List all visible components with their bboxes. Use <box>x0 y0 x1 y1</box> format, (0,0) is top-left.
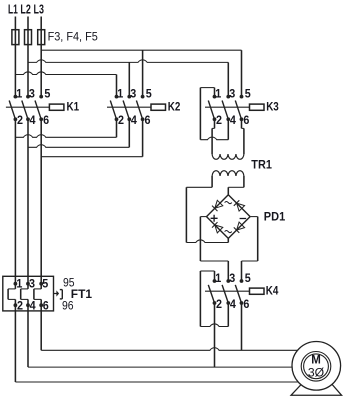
svg-text:1: 1 <box>16 86 22 100</box>
diode lower-left <box>215 225 223 233</box>
coil K2 <box>151 104 166 110</box>
overload FT1 heater 3 <box>34 284 41 306</box>
overload FT1 heater 2 <box>21 284 28 306</box>
motor inner circle 1 <box>301 352 331 382</box>
node K4 terminal 3 <box>226 279 230 283</box>
svg-text:TR1: TR1 <box>251 157 272 171</box>
node K2 terminal 5 <box>141 95 145 99</box>
svg-text:M: M <box>311 355 321 367</box>
node K3 terminal 6 <box>240 117 244 121</box>
svg-text:1: 1 <box>117 86 123 100</box>
node K3 terminal 1 <box>213 95 217 99</box>
wire K2 linkage <box>107 106 151 108</box>
contact K4 pole 1 blade <box>208 285 214 303</box>
node K2 terminal 1 <box>115 95 119 99</box>
node FT1 terminal 1 <box>14 282 18 286</box>
svg-text:L3: L3 <box>34 2 44 17</box>
svg-text:6: 6 <box>243 297 249 311</box>
wire K1 out phase2 <box>27 119 29 283</box>
fuse F4 <box>25 30 32 45</box>
label PD1 minus <box>240 218 247 220</box>
svg-text:L1: L1 <box>8 2 18 17</box>
wire K4 linkage <box>205 290 250 292</box>
svg-text:5: 5 <box>42 277 48 291</box>
node K2 terminal 6 <box>141 117 145 121</box>
wire K3 terminal 6 to TR1 primary <box>242 119 244 154</box>
node FT1 terminal 6 <box>39 303 43 307</box>
wire branch L2 corner down to K3 terminal 3 <box>227 62 229 96</box>
svg-text:3Ø: 3Ø <box>308 368 324 380</box>
node K3 terminal 5 <box>240 95 244 99</box>
node FT1 terminal 3 <box>26 282 30 286</box>
svg-text:4: 4 <box>230 113 236 127</box>
contact K2 pole 1 blade <box>110 101 116 120</box>
node K1 terminal 1 <box>14 95 18 99</box>
overload FT1 trip contact 95-96 <box>60 290 63 299</box>
svg-text:1: 1 <box>215 271 221 285</box>
wire motor phase3 <box>41 348 297 351</box>
wire TR1 secondary right to PD1 top <box>228 176 244 195</box>
node K4 terminal 2 <box>213 301 217 305</box>
wire K3 linkage <box>205 106 250 108</box>
wire K3 terminal 4 to terminal 1 connector <box>200 137 228 140</box>
coil K3 <box>250 104 265 110</box>
fuse F5 <box>38 30 45 45</box>
svg-text:K4: K4 <box>266 284 279 298</box>
node K2 terminal 3 <box>127 95 131 99</box>
contact K3 pole 1 blade <box>208 101 214 120</box>
svg-text:PD1: PD1 <box>264 210 286 224</box>
transformer TR1 secondary winding <box>212 171 244 176</box>
label PD1 ac top <box>225 202 232 204</box>
svg-text:4: 4 <box>30 299 36 313</box>
wire riser K2 terminal 5 <box>142 50 144 96</box>
diode lower-right <box>237 222 245 230</box>
svg-text:3: 3 <box>130 86 136 100</box>
node K1 terminal 3 <box>26 95 30 99</box>
svg-text:3: 3 <box>229 86 235 100</box>
svg-text:1: 1 <box>215 86 221 100</box>
contact K2 pole 3 blade <box>136 101 142 120</box>
wire secondary return to PD1 bottom <box>186 240 228 243</box>
wire K4 terminal 6 to motor phase3 <box>241 303 243 350</box>
wire K4 terminal 4 drop <box>227 303 229 327</box>
wire motor phase2 <box>28 305 292 367</box>
wire K4 terminal 4 to terminal 1 connector <box>200 324 228 327</box>
node K4 terminal 1 <box>213 279 217 283</box>
svg-text:2: 2 <box>17 299 23 313</box>
node FT1 terminal 5 <box>39 282 43 286</box>
wire K2 terminal 6 to phase3 <box>41 156 142 158</box>
wire K1 out phase3 <box>40 119 42 283</box>
wire branch from L2 to K3 pole2 <box>28 60 228 63</box>
svg-text:5: 5 <box>146 86 152 100</box>
coil K1 <box>49 104 64 110</box>
wire K2 terminal 4 to phase2 <box>28 145 129 148</box>
svg-text:3: 3 <box>229 271 235 285</box>
svg-text:2: 2 <box>17 113 23 127</box>
wire branch from L1 to K2 pole1 <box>15 72 116 75</box>
wire K2 terminal 4 drop <box>128 119 130 147</box>
svg-text:L2: L2 <box>20 2 30 17</box>
node K1 terminal 6 <box>39 117 43 121</box>
contact K3 pole 3 blade <box>235 101 241 120</box>
overload FT1 trip arrow <box>54 293 57 295</box>
svg-text:K2: K2 <box>168 100 181 114</box>
contact K1 pole 1 blade <box>9 101 15 120</box>
svg-text:F3, F4, F5: F3, F4, F5 <box>48 30 98 44</box>
overload FT1 box <box>3 276 54 311</box>
motor base <box>291 382 342 395</box>
wire K1 linkage <box>6 106 50 108</box>
contact K3 pole 2 blade <box>222 101 228 120</box>
wire motor phase3 segment <box>40 305 42 350</box>
node K1 terminal 2 <box>14 117 18 121</box>
svg-text:K1: K1 <box>67 100 80 114</box>
svg-text:2: 2 <box>216 297 222 311</box>
contact K1 pole 3 blade <box>35 101 41 120</box>
node K3 terminal 2 <box>213 117 217 121</box>
wire TR1 secondary left return <box>186 176 212 243</box>
node FT1 terminal 2 <box>14 303 18 307</box>
contact K2 pole 2 blade <box>123 101 129 120</box>
svg-text:5: 5 <box>245 271 251 285</box>
svg-text:6: 6 <box>243 113 249 127</box>
svg-text:FT1: FT1 <box>71 287 93 301</box>
contact K4 pole 2 blade <box>222 285 228 303</box>
diode upper-right <box>237 203 245 211</box>
node K1 terminal 5 <box>39 95 43 99</box>
wire L1 vertical <box>14 17 16 97</box>
node K3 terminal 4 <box>226 117 230 121</box>
label PD1 plus <box>211 215 218 222</box>
wire K1 out phase1 <box>14 119 16 283</box>
svg-text:K3: K3 <box>266 100 279 114</box>
wire riser K2 terminal 3 <box>128 62 130 96</box>
node K2 terminal 4 <box>127 117 131 121</box>
wire PD1 minus lead <box>242 217 258 281</box>
svg-text:6: 6 <box>43 299 49 313</box>
fuse F3 <box>12 30 19 45</box>
motor inner circle 2 <box>304 354 329 379</box>
wire K3 terminal 2 to TR1 primary <box>212 119 214 154</box>
wire L2 vertical <box>27 17 29 97</box>
diode upper-left <box>215 200 223 208</box>
svg-text:3: 3 <box>29 86 35 100</box>
contact K4 pole 3 blade <box>235 285 241 303</box>
wire K3 terminal 4 drop <box>227 119 229 139</box>
node FT1 terminal 4 <box>26 303 30 307</box>
svg-text:4: 4 <box>30 113 36 127</box>
node K4 terminal 4 <box>226 301 230 305</box>
wire K3 terminal 1 feed <box>200 88 214 140</box>
rectifier PD1 outline <box>207 195 251 239</box>
node K1 terminal 4 <box>26 117 30 121</box>
wire K4 terminal 1 feed <box>200 271 214 327</box>
svg-text:6: 6 <box>43 113 49 127</box>
svg-text:4: 4 <box>131 113 137 127</box>
motor M outer circle <box>292 342 341 391</box>
label PD1 ac bottom <box>225 231 232 233</box>
wire PD1 plus lead <box>200 217 228 281</box>
svg-text:5: 5 <box>44 86 50 100</box>
node K2 terminal 2 <box>115 117 119 121</box>
svg-text:2: 2 <box>118 113 124 127</box>
svg-text:4: 4 <box>230 297 236 311</box>
wire riser K2 terminal 1 <box>116 75 118 97</box>
wire PD1 bottom corner drop <box>227 238 229 242</box>
transformer TR1 primary winding <box>212 154 244 159</box>
coil K4 <box>250 288 265 294</box>
svg-text:6: 6 <box>145 113 151 127</box>
contact K1 pole 2 blade <box>22 101 28 120</box>
node K4 terminal 5 <box>240 279 244 283</box>
svg-text:2: 2 <box>216 113 222 127</box>
wire K2 terminal 2 to phase1 <box>15 135 116 138</box>
wire K2 terminal 2 drop <box>116 119 118 137</box>
wire branch L3 corner down to K3 terminal 5 <box>241 50 243 96</box>
wire L3 vertical <box>40 17 42 97</box>
svg-text:5: 5 <box>245 86 251 100</box>
wire K4 terminal 2 to motor phase2 <box>214 303 216 367</box>
overload FT1 heater 1 <box>8 284 15 306</box>
wire K2 terminal 6 drop <box>142 119 144 156</box>
wire motor phase1 <box>15 305 298 382</box>
wire branch from L3 to K2/K3 pole3 <box>41 49 241 51</box>
node K4 terminal 6 <box>240 301 244 305</box>
node K3 terminal 3 <box>226 95 230 99</box>
